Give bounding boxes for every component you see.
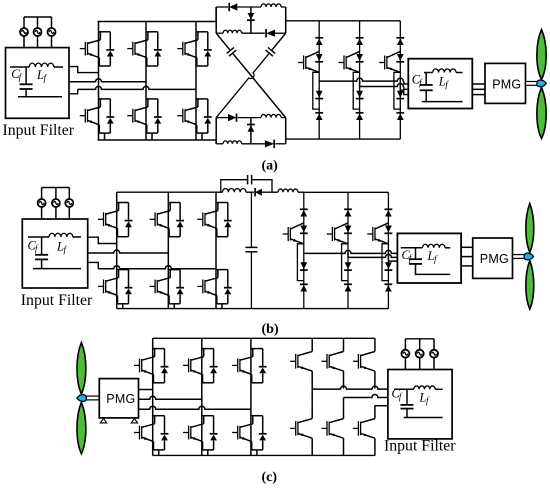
svg-text:(c): (c): [262, 470, 278, 485]
svg-text:PMG: PMG: [106, 392, 135, 406]
svg-text:Input Filter: Input Filter: [21, 292, 93, 309]
svg-text:PMG: PMG: [480, 252, 509, 266]
svg-text:Input Filter: Input Filter: [3, 122, 75, 139]
svg-text:PMG: PMG: [492, 77, 521, 91]
svg-text:Input Filter: Input Filter: [384, 438, 456, 455]
svg-text:(b): (b): [262, 322, 279, 337]
svg-text:(a): (a): [262, 159, 279, 174]
